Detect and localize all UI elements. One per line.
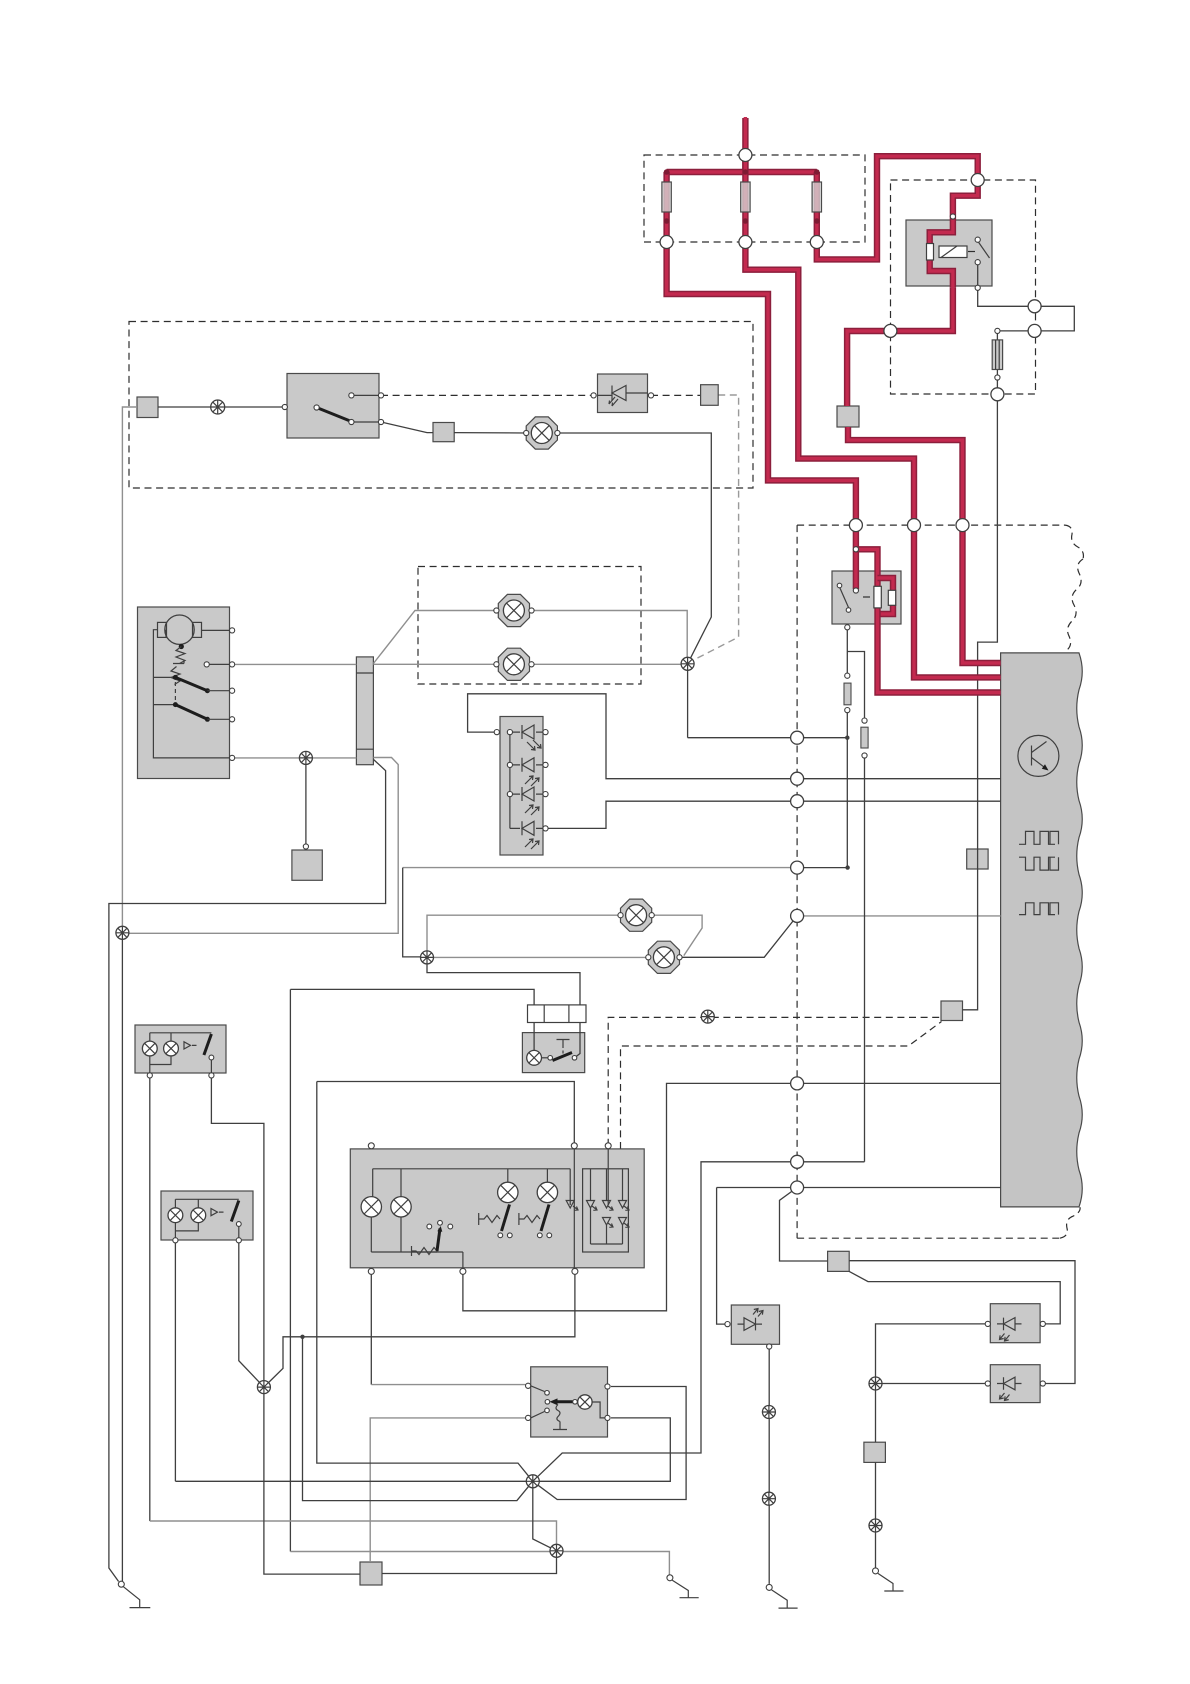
fuse F6 body — [861, 727, 868, 748]
instrument cluster switch 2 arm — [541, 1205, 549, 1232]
connector bar C5 divider bottom — [356, 748, 373, 750]
node circle dashed top 1 — [849, 519, 862, 532]
red feed wire from top — [742, 117, 748, 171]
motor M1 arm1 branch — [153, 676, 175, 678]
terminal bottom switch SW2 right — [605, 1384, 610, 1421]
wire branch x=302 from row 1336 to X junction F — [303, 1337, 533, 1501]
buzzer B3 arrows — [1000, 1393, 1010, 1401]
terminal relay U2 arm top — [837, 583, 842, 588]
node circle relay loop bottom — [1028, 324, 1041, 337]
terminal lamp LP5 — [646, 955, 682, 960]
wire node row 1187 to module — [717, 1187, 1001, 1189]
dashed relay box top right — [891, 180, 1036, 394]
terminal buzzer B3 — [985, 1381, 1045, 1386]
instrument cluster LED row1 arrows — [573, 1206, 629, 1210]
instrument cluster lamp 4 — [537, 1182, 557, 1202]
red fuse FB drop — [742, 157, 748, 240]
dashed wire cluster terminal 2 to connector square S6 — [621, 1022, 942, 1150]
instrument cluster IC1 grey body — [350, 1149, 644, 1268]
relay U1 top right grey body — [906, 220, 992, 286]
terminal fuse F6 ends — [862, 718, 867, 758]
dashed big module box bottom edge with wavy break — [797, 1207, 1080, 1238]
LED L1 diode 1 — [522, 725, 534, 739]
wire connector C12 right to X junction 6 — [382, 1551, 557, 1574]
instrument cluster pass wire x=574 — [573, 1149, 575, 1268]
dashed wire switch to diode box — [381, 394, 594, 396]
motor M1 right bracket — [193, 622, 202, 637]
terminal relay U2 red in — [853, 547, 858, 552]
wire LED1 loop over box to node row 778 — [468, 694, 1001, 779]
wire corner x=290 to fuse block cell1 — [290, 989, 534, 1005]
X junction F — [526, 1475, 539, 1488]
wire fuse F4 to node on dashed edge — [996, 332, 998, 394]
glovebox switch G1 T dashes — [562, 1045, 564, 1055]
wire X junction L down to connector C8 — [305, 758, 307, 844]
terminal LED box right — [543, 730, 548, 832]
flasher F1 triangle symbol — [184, 1042, 197, 1049]
node circle row 737 — [791, 731, 804, 744]
terminal lamp LP4 — [618, 913, 654, 918]
wire switch S1 lower contact to edge — [351, 421, 381, 423]
red dot bus mid — [743, 169, 749, 175]
connector bar C5 (3 segment vertical) — [356, 657, 373, 765]
wire node to fuse F4 top — [997, 330, 1034, 332]
terminal relay U1 coil top — [950, 214, 955, 219]
wire grey row 1521 to X junction 6 — [150, 1521, 557, 1551]
wire row 1481 through X junction F to bottom switch — [175, 1418, 670, 1481]
flasher F1 bottom links — [150, 1056, 212, 1076]
fuse F4 inner lines — [996, 340, 1000, 370]
module A1 transistor symbol — [1032, 742, 1047, 769]
motor M1 brush dot — [179, 644, 184, 649]
terminal relay U2 arm bottom — [846, 608, 851, 613]
bottom switch SW2 contact circles — [545, 1391, 550, 1413]
motor M1 arm contact leads — [207, 691, 232, 720]
node circle row 1083 — [791, 1077, 804, 1090]
connector square C7 right of cluster dashes — [941, 1001, 963, 1021]
LED L1 diode 2 arrows — [525, 776, 539, 786]
motor M1 internal left bus — [153, 630, 232, 758]
bottom switch SW2 grey body — [531, 1367, 608, 1437]
instrument cluster LED row2 — [603, 1218, 627, 1226]
motor M1 arm2 end dot — [205, 717, 210, 722]
flasher F2 arm contact — [236, 1222, 241, 1227]
terminal switch S1 input — [282, 404, 287, 409]
wire module row 1083 to cluster bottom loop — [463, 1083, 1001, 1310]
motor M1 arm1 — [175, 677, 207, 690]
node circle dashed top 3 — [956, 519, 969, 532]
diode D1 symbol bar — [611, 386, 613, 401]
relay U1 resistor body — [927, 244, 934, 261]
instrument cluster lamp drops — [373, 1169, 571, 1205]
X junction D on dashed wire — [701, 1010, 714, 1023]
wire bottom switch right top terminal loop to X junction F — [533, 1387, 686, 1500]
lamp octagon LP4 body — [621, 899, 652, 931]
motor M1 arm2 dots — [173, 702, 178, 707]
terminal connector C8 top — [303, 844, 308, 849]
LED L1 diode 1 arrows — [527, 740, 541, 750]
fuse block C9 divider 1 — [543, 1005, 545, 1023]
lamp LP3 inner circle — [531, 423, 552, 444]
instrument cluster LED row1 — [566, 1201, 626, 1209]
wire fuse F6 down to node row 1161 — [864, 756, 866, 1162]
lamp LP4 inner circle — [626, 905, 647, 926]
motor M1 resistor tap bracket — [173, 660, 184, 664]
flasher F1 lamp 2 — [164, 1041, 179, 1056]
motor M1 arm1 dots — [173, 675, 178, 680]
red dot bus left — [664, 169, 670, 175]
module A1 transistor emitter arrowhead — [1042, 764, 1049, 770]
wire buzzer B3 left to X junction J — [876, 1383, 988, 1385]
wire node row 737 to fuse line — [688, 737, 848, 739]
wire C1 left down page border — [122, 407, 137, 933]
glovebox switch G1 T symbol — [557, 1040, 570, 1046]
X junction E — [257, 1381, 270, 1394]
module A1 square wave row2 — [1019, 857, 1059, 870]
glovebox lamp G1 — [527, 1050, 542, 1065]
terminal diode box D1 — [591, 393, 654, 398]
red wire relay U2 out to module — [878, 608, 1001, 693]
lamp LP2 inner circle — [503, 654, 524, 675]
diode D1 arrows — [609, 397, 618, 406]
connector square C4 on red wire — [837, 406, 859, 427]
motor M1 lead right — [202, 629, 233, 631]
terminal fuse F4 top — [995, 328, 1000, 333]
wire switch S1 upper contact to edge — [351, 394, 381, 396]
ground left circle — [118, 1581, 124, 1587]
wire X junction F down diagonal to X junction 6 — [533, 1481, 557, 1551]
buzzer B1 symbol — [738, 1318, 763, 1331]
terminal LED box inner bus — [507, 730, 512, 797]
buzzer box B1 grey body — [731, 1305, 779, 1344]
buzzer B2 arrows — [1000, 1334, 1010, 1342]
instrument cluster switch 1 contacts — [498, 1233, 512, 1238]
ground buzzer B1 symbol — [772, 1590, 798, 1608]
ground buzzer B2 circle — [873, 1568, 879, 1574]
terminal flasher F1 — [147, 1073, 214, 1078]
LED L1 diode 4 arrows — [525, 839, 539, 849]
buzzer B2 symbol — [997, 1318, 1022, 1331]
lamp LP5 inner circle — [653, 947, 674, 968]
X junction C — [421, 951, 434, 964]
flasher F2 bottom links — [175, 1223, 238, 1241]
red wire relay U2 coil branch — [856, 549, 878, 586]
instrument cluster lamp 3 — [498, 1182, 518, 1202]
wire buzzer B1 bottom down to ground — [768, 1349, 770, 1584]
diode D1 symbol triangle — [612, 386, 626, 401]
junction dot fuse line node1 — [845, 736, 849, 740]
red fuse FA drop — [663, 172, 669, 240]
flasher F2 lamp 2 — [191, 1208, 206, 1223]
X junction H buzzer line — [762, 1406, 775, 1419]
terminal cluster bottom — [368, 1268, 578, 1274]
X junction top left wire — [211, 400, 225, 414]
wire grey stub XA row — [122, 758, 398, 934]
buzzer B3 symbol — [997, 1377, 1022, 1390]
motor unit M1 grey body — [138, 607, 230, 779]
relay U1 switch arm — [978, 241, 990, 258]
glovebox switch G1 lead — [542, 1057, 549, 1059]
node circle row 778 — [791, 772, 804, 785]
wire motor terminal to connector C5 — [232, 663, 356, 665]
wire node4 row grey left part — [403, 867, 797, 869]
connector square C2 right of diode box — [701, 385, 719, 406]
terminal fuse F4 bottom — [995, 375, 1000, 380]
red wire fuse FB to module staircase — [745, 244, 1000, 677]
wire X junction B down to node row 737 — [687, 664, 689, 738]
instrument cluster LED bus verticals — [591, 1169, 623, 1244]
wire x=402 down to X junction C — [403, 868, 421, 957]
motor M1 arm2 branch — [153, 704, 175, 706]
switch S1 arm — [317, 408, 352, 422]
fuse block C9 (3 cell white) — [528, 1005, 587, 1023]
fuse F4 body — [992, 340, 1002, 370]
diode box D1 top grey body — [598, 374, 648, 413]
wire X junction C down to fuse block cell3 — [427, 957, 580, 1005]
glovebox switch G1 arm — [553, 1053, 573, 1061]
instrument cluster switch 1 resistor — [479, 1213, 500, 1225]
red dot below fuse FB — [743, 218, 749, 224]
connector square C1 top left — [137, 397, 158, 418]
bottom switch SW2 lamp — [578, 1395, 592, 1409]
LED box L1 row leads — [510, 732, 546, 828]
red dot bus right — [814, 169, 820, 175]
wire relay U2 pin down with branch — [847, 627, 864, 720]
wire C1 to switch S1 — [158, 406, 285, 408]
bottom switch SW2 internal spring — [556, 1405, 560, 1422]
wire node loop rectangle right — [1035, 306, 1075, 331]
junction dot fuse line node4 — [845, 865, 849, 869]
instrument cluster LED panel outline — [583, 1169, 629, 1252]
relay U1 coil body — [939, 246, 967, 258]
wire C3 to lamp LP3 — [454, 432, 526, 434]
wire X junction J down through connector C11 — [875, 1384, 877, 1568]
instrument cluster internal top bus — [373, 1168, 571, 1170]
fuse block C9 divider 2 — [568, 1005, 570, 1023]
dashed wire diode box to connector square — [651, 394, 701, 396]
node circle below fuse FC — [810, 236, 823, 249]
grey dashed wire from connector square to X junction — [690, 395, 739, 662]
motor M1 left bracket — [158, 622, 167, 637]
ground buzzer B1 circle — [766, 1584, 772, 1590]
lamp octagon LP3 top left box lamp — [526, 417, 557, 449]
flasher F2 switch arm — [231, 1201, 239, 1222]
connector square C6 on vertical wire x=977 — [967, 849, 988, 869]
flasher F1 internal top bus — [150, 1033, 212, 1041]
wire flasher F2 left terminal down to row 1481 — [174, 1240, 176, 1481]
X junction 6 — [550, 1544, 563, 1557]
dashed lamp box middle — [418, 567, 641, 685]
bottom switch SW2 arrowhead — [550, 1398, 558, 1405]
wire flasher F1 left terminal down to grey row 1521 — [149, 1075, 151, 1521]
instrument cluster rheostat arrow — [437, 1229, 440, 1252]
LED L1 diode 3 arrows — [525, 805, 539, 815]
connector square C10 on wire to buzzers — [828, 1251, 850, 1271]
motor M1 arm2 — [175, 705, 207, 720]
instrument cluster switch 1 arm — [502, 1205, 510, 1232]
node circle relay top — [971, 174, 984, 187]
terminal relay U1 switch — [975, 237, 980, 290]
wire node4 row black right part — [797, 867, 848, 869]
switch S1 top left grey body — [287, 374, 379, 439]
dashed box top left — [129, 322, 753, 489]
red wire fuse FA to relay U2 staircase — [667, 244, 856, 589]
terminal flasher F2 — [173, 1238, 242, 1243]
wire lamp LP1 right to X junction B — [532, 611, 688, 664]
ground left symbol — [124, 1587, 151, 1608]
connector square C8 below motor X junction — [292, 850, 322, 880]
red wire relay U1 coil loop — [930, 217, 953, 288]
flasher F2 internal top bus — [175, 1199, 238, 1207]
instrument cluster rheostat arrowhead — [437, 1226, 442, 1232]
wire LP3 to X junction B — [557, 433, 711, 664]
instrument cluster lamp 1 — [361, 1197, 381, 1217]
node circle row 801 — [791, 795, 804, 808]
fuse FA body — [662, 182, 671, 212]
wire left vertical from connector bottom corner — [109, 759, 386, 1581]
X junction B lamps — [681, 657, 694, 670]
wire grey row to bottom switch left top terminal — [371, 1384, 525, 1386]
fuse F5 body — [844, 683, 851, 705]
wire C10 right loop to buzzer B3 — [849, 1261, 1075, 1384]
node circle relay loop top — [1028, 300, 1041, 313]
lamp octagon LP5 body — [648, 941, 679, 973]
red bus across fuses — [667, 169, 817, 175]
terminal relay U2 pin — [845, 625, 850, 630]
relay U2 coil body — [874, 586, 881, 608]
wire lamp LP5 right diagonal to node5 — [680, 916, 798, 957]
red fuse FC drop — [814, 172, 820, 240]
dashed link relay2 coil to switch arm — [863, 596, 873, 598]
LED L1 diode 2 — [522, 758, 534, 772]
module A1 transistor circle — [1018, 735, 1059, 776]
motor M1 mid contact lead — [209, 663, 232, 665]
flasher F1 lamp 1 — [142, 1041, 157, 1056]
relay U2 switch arm — [840, 587, 849, 608]
buzzer B1 arrows — [753, 1309, 763, 1317]
wire bottom switch left bottom terminal left and down to C12 — [370, 1418, 525, 1562]
node circle row 867 — [791, 861, 804, 874]
wire flasher F1 right terminal jog down to X junction E — [211, 1075, 264, 1387]
motor M1 resistor zigzag — [171, 647, 185, 685]
instrument cluster LED row2 arrows — [608, 1223, 629, 1227]
motor M1 arm1 end dot — [205, 688, 210, 693]
relay U2 middle grey body — [832, 571, 901, 624]
wire lamp LP2 row connector to X junction B — [373, 663, 687, 665]
lamp octagon LP1 body — [498, 594, 529, 626]
node circle below fuse FB — [739, 236, 752, 249]
glovebox lamp switch G1 grey body — [522, 1033, 584, 1073]
X junction I buzzer line — [762, 1492, 775, 1505]
bottom switch SW2 lamp lead to right terminal — [592, 1402, 607, 1418]
X junction A left border — [116, 926, 129, 939]
terminal lamp LP1 — [494, 608, 534, 613]
wire x=290 long vertical down — [289, 989, 291, 1551]
wire X junction E down to connector C12 — [264, 1387, 360, 1574]
flasher F2 lamp 1 — [168, 1208, 183, 1223]
wire x=316 down to diagonal into X junction F — [317, 1082, 533, 1482]
dashed wire cluster terminal 1 to connector square S6 — [608, 1017, 941, 1145]
LED L1 diode 3 — [522, 787, 534, 801]
wire C10 diagonal loop to buzzer B2 — [849, 1271, 1060, 1324]
wire motor bottom to connector C5 — [232, 757, 356, 759]
node circle top feed — [739, 149, 752, 162]
node circle row 915 — [791, 909, 804, 922]
wire node row 1161 to corner x=701 — [533, 1162, 865, 1482]
terminal bottom switch SW2 left — [526, 1383, 531, 1420]
flasher box F1 left grey body — [135, 1025, 226, 1073]
node circle row 1161 — [791, 1155, 804, 1168]
bottom switch SW2 arm end circle — [573, 1400, 578, 1405]
instrument cluster bottom bus — [371, 1217, 463, 1268]
wire switch S1 to connector C3 — [381, 422, 433, 433]
dashed big module box left edge — [796, 525, 798, 1238]
motor M1 dashed link — [174, 682, 176, 702]
wire lamp LP4 left corner down to X junction C — [427, 915, 621, 957]
wire fuse F5 down to node rows — [846, 710, 848, 868]
wire LED4 loop to node row 801 — [546, 801, 1001, 828]
instrument cluster wire from terminal x=608 — [607, 1149, 609, 1205]
instrument cluster switch 2 resistor — [519, 1213, 540, 1225]
module A1 square wave row3 — [1019, 903, 1059, 915]
wire lamp LP1 diagonal from connector C5 — [373, 611, 496, 664]
wire fuse block cell1 down to glovebox lamp — [533, 1023, 535, 1051]
wire cluster terminal x=574 down and left to X junction E — [264, 1271, 575, 1387]
terminal lamp LP2 — [494, 662, 534, 667]
bottom switch SW2 contact diagonals — [531, 1386, 545, 1418]
wire node 1187 diagonal down to connector C10 — [780, 1188, 828, 1262]
terminal relay U2 red contact — [853, 588, 858, 593]
terminal cluster top — [368, 1143, 611, 1149]
X junction K — [869, 1519, 882, 1532]
wire long vertical from fuse node to connector C7 — [963, 394, 998, 1010]
ground buzzer B2 symbol — [878, 1573, 904, 1591]
terminal lamp LP3 — [524, 430, 560, 435]
relay U1 coil diagonal — [941, 246, 957, 258]
wire flasher F2 right terminal diagonal into X junction E — [239, 1240, 264, 1387]
wire buzzer B2 left to X junction J — [876, 1324, 988, 1384]
node circle below fuse FA — [660, 236, 673, 249]
terminal LED box left outer — [494, 730, 499, 735]
node circle red left edge — [884, 324, 897, 337]
wire node 1187 left down to buzzer B1 — [717, 1188, 727, 1325]
node circle dashed top 2 — [908, 519, 921, 532]
node circle fuse F4 bottom — [991, 388, 1004, 401]
flasher F1 arm contact — [209, 1055, 214, 1060]
connector square C11 on buzzer ground wire — [864, 1442, 886, 1462]
red wire connector C4 to module staircase — [848, 427, 1001, 663]
lamp octagon LP2 body — [498, 648, 529, 680]
node circle row 1187 — [791, 1181, 804, 1194]
wire relay U1 pin down to node loop right — [978, 265, 1035, 307]
flasher F2 triangle symbol — [211, 1209, 224, 1216]
buzzer box B3 grey body — [990, 1365, 1040, 1403]
instrument cluster rheostat — [412, 1246, 438, 1256]
junction dot row 1336 branch — [300, 1335, 304, 1339]
terminal switch S1 pivot — [314, 405, 319, 410]
bottom switch SW2 internal ground — [553, 1422, 567, 1430]
module A1 square wave row1 — [1019, 831, 1059, 844]
red wire relay U2 coil loop right — [878, 578, 894, 614]
dashed wavy right edge of module box upper part — [1067, 559, 1083, 650]
terminal buzzer B2 — [985, 1321, 1045, 1326]
red wire relay U1 out to connector C4 — [847, 288, 953, 406]
connector square C12 on bottom wire — [360, 1562, 382, 1585]
fuse FC body — [812, 182, 821, 212]
terminal fuse F5 ends — [845, 673, 850, 713]
LED L1 diode 4 — [522, 821, 534, 835]
red wire fuse FC up to relay U1 — [817, 156, 978, 259]
